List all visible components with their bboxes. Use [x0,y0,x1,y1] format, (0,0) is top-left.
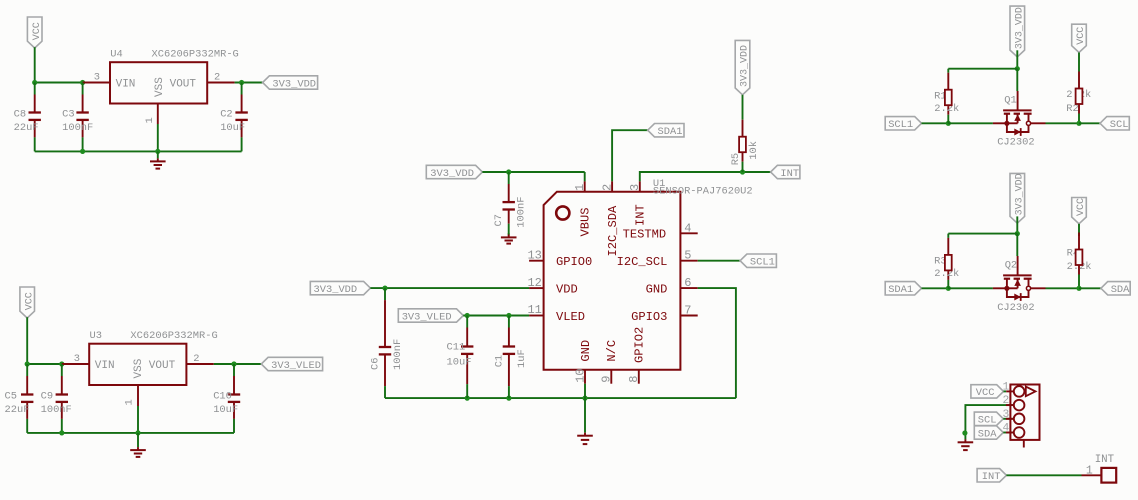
wire R3 to Q2 source [948,287,993,289]
wire VOUT to 3V3_VLED label [214,363,261,365]
sensor U1 SENSOR-PAJ7620U2 body [544,178,753,370]
svg-text:I2C_SDA: I2C_SDA [606,205,620,257]
wire SDA1 to R3 [922,287,949,289]
svg-text:1: 1 [1003,381,1010,393]
svg-text:VOUT: VOUT [170,78,197,90]
supply flag VCC (R2) [1072,24,1088,52]
wire pin6 GND to rail [698,288,736,398]
junction C7 [506,169,511,174]
junction C5/VCC [25,361,30,366]
svg-text:22uF: 22uF [5,404,30,416]
svg-text:3V3_VLED: 3V3_VLED [271,360,321,372]
wire row VCC-C8-C3 [35,82,83,84]
svg-text:R5: R5 [730,153,742,165]
junction rail C11 [465,396,470,401]
svg-text:VDD: VDD [556,283,578,297]
net label SCL1 (pin5) [740,254,776,269]
svg-text:C5: C5 [5,390,17,402]
net label SDA (connector) [974,426,1003,441]
supply flag 3V3_VDD (R5) [735,40,751,94]
svg-text:VCC: VCC [32,22,43,40]
svg-text:100nF: 100nF [392,339,404,370]
svg-text:C2: C2 [220,108,232,120]
junction rail VSS [155,149,160,154]
wire to SCL label [1079,122,1100,124]
svg-text:GPIO3: GPIO3 [631,310,667,324]
svg-text:3V3_VDD: 3V3_VDD [314,284,358,296]
supply flag VCC (U4 input) [27,17,43,48]
resistor R4 2.2k [1067,233,1092,289]
svg-text:7: 7 [684,304,691,318]
capacitor C3 100nF [62,83,93,152]
wire gnd rail U3 [27,432,234,434]
resistor R1 2.2k [934,69,959,124]
pin 2 stub of U4 VOUT [207,71,234,83]
svg-text:3V3_VDD: 3V3_VDD [1015,7,1026,49]
svg-text:3V3_VDD: 3V3_VDD [1015,173,1026,215]
svg-text:10: 10 [573,368,587,382]
svg-text:5: 5 [684,249,691,263]
svg-text:Q2: Q2 [1005,259,1017,271]
junction C11 [465,313,470,318]
pin 1 stub of U3 VSS [124,385,138,406]
svg-text:VSS: VSS [133,358,145,378]
svg-text:C8: C8 [14,108,26,120]
svg-text:1uF: 1uF [516,349,528,368]
capacitor C6 100nF [370,288,405,398]
svg-text:100nF: 100nF [41,404,72,416]
pin 7 stub U1 GPIO3 [680,304,697,318]
junction Q2 gate net [1015,231,1020,236]
wire Q1 gate drop [1016,69,1018,91]
wire R1 to Q1 source [948,122,993,124]
junction C2 [239,80,244,85]
capacitor C2 10uF [220,83,248,152]
resistor R5 10k [730,95,760,172]
pin 8 stub U1 GPIO2 [627,370,641,384]
svg-text:10uF: 10uF [447,356,472,368]
svg-text:10uF: 10uF [213,404,238,416]
wire bottom gnd rail U1 [385,397,736,399]
wire VCC to VIN row [34,47,36,82]
net label SCL (connector) [974,412,1003,427]
wire VCC to R4 [1078,224,1080,236]
svg-text:VSS: VSS [154,77,166,97]
net label SCL (right) [1100,117,1129,132]
svg-text:GPIO2: GPIO2 [633,327,647,363]
ground symbol U1 [577,398,593,444]
ground symbol U4 [150,151,166,168]
wire conn pin2 to ground [965,405,1013,439]
wire U4 VSS down [157,124,159,151]
connector J1 4-pin header [1010,385,1039,448]
wire INT row to label [743,171,771,173]
wire 3V3_VLED to pin 11 [463,315,529,317]
pin 11 stub U1 VLED [527,303,543,317]
transistor Q1 CJ2302 [993,91,1046,149]
junction C10 [231,361,236,366]
svg-text:11: 11 [527,303,541,317]
svg-text:8: 8 [627,376,641,383]
svg-text:C6: C6 [370,358,382,370]
svg-text:INT: INT [634,204,648,226]
svg-text:INT: INT [1095,454,1115,466]
pin 2 stub of U3 VOUT [186,353,213,365]
svg-text:C10: C10 [213,390,232,402]
capacitor C1 1uF [493,316,528,399]
capacitor C7 100nF [493,172,528,236]
ground symbol U3 [130,433,146,457]
svg-text:INT: INT [982,471,1001,483]
svg-text:3: 3 [94,71,100,83]
wire VCC to R2 [1078,53,1080,72]
ground symbol C7 [501,233,517,244]
net label SDA1 (Q2 row) [885,282,921,297]
transistor Q2 CJ2302 [993,256,1046,314]
junction C6 [382,286,387,291]
pin 1 stub U1 [573,181,587,191]
wire gate net to R3 top [948,233,1017,235]
svg-text:U3: U3 [90,330,102,342]
junction R3 [946,286,951,291]
svg-text:VCC: VCC [1076,27,1087,45]
ground symbol connector [958,439,974,450]
junction rail C3 [80,149,85,154]
svg-text:3: 3 [74,353,80,365]
svg-text:13: 13 [527,248,541,262]
voltage regulator U3 XC6206P332MR-G [89,330,217,385]
svg-text:CJ2302: CJ2302 [997,137,1034,149]
svg-text:SENSOR-PAJ7620U2: SENSOR-PAJ7620U2 [653,186,753,198]
svg-text:XC6206P332MR-G: XC6206P332MR-G [130,330,217,342]
net label 3V3_VDD (U1 VBUS) [426,165,482,180]
svg-text:SCL: SCL [978,415,997,427]
resistor R3 2.2k [934,234,959,289]
wire SCL1 to R1 [922,122,949,124]
supply flag 3V3_VDD (Q1) [1010,6,1026,57]
svg-text:3V3_VDD: 3V3_VDD [430,168,474,180]
svg-text:2: 2 [214,71,220,83]
wire 3V3_VDD down Q2 [1016,216,1018,233]
svg-text:1: 1 [124,399,136,405]
svg-text:SCL1: SCL1 [750,257,775,269]
wire SDA1 to pin 2 [612,130,648,181]
svg-text:1: 1 [144,117,156,123]
wire row VCC-C5-C9 [27,363,62,365]
junction R1 [946,121,951,126]
wire pin 3 to INT row [640,172,743,181]
pin 3 stub connector [1003,409,1014,421]
net label 3V3_VLED (U3 output) [261,357,322,372]
pin 3 stub of U3 VIN [62,353,89,365]
svg-text:SCL: SCL [1110,119,1129,131]
svg-text:2: 2 [193,353,199,365]
svg-text:100nF: 100nF [516,197,528,228]
pin 10 stub U1 GND [573,368,587,383]
net label SDA1 (U1 pin2) [648,124,684,139]
svg-text:12: 12 [527,276,541,290]
svg-text:3V3_VDD: 3V3_VDD [272,78,316,90]
junction C3 [80,80,85,85]
wire INT to pad [1006,474,1081,476]
svg-text:4: 4 [1003,423,1010,435]
svg-text:U4: U4 [110,49,122,61]
junction C9 [59,361,64,366]
net label SDA (right) [1101,282,1130,297]
wire U3 VSS down [137,406,139,433]
svg-text:3: 3 [1003,409,1010,421]
svg-text:GPIO0: GPIO0 [556,255,592,269]
svg-text:10uF: 10uF [220,122,245,134]
test pad INT [1095,454,1117,483]
svg-text:6: 6 [684,276,691,290]
supply flag VCC (U3 input) [20,287,36,318]
capacitor C9 100nF [41,364,72,433]
svg-text:22uF: 22uF [14,122,39,134]
junction rail pin10 [582,396,587,401]
net label SCL1 (Q1 row) [885,117,921,132]
pin 2 stub U1 [600,181,614,191]
pin 3 stub U1 [628,181,642,191]
net label INT (R5 row) [771,165,800,180]
junction Q1 gate net [1015,66,1020,71]
junction C8/VCC [32,80,37,85]
svg-text:GND: GND [579,340,593,362]
svg-text:XC6206P332MR-G: XC6206P332MR-G [152,49,239,61]
junction rail C1 [506,396,511,401]
svg-text:I2C_SCL: I2C_SCL [617,255,668,269]
pin 4 stub connector [1003,423,1014,435]
svg-text:4: 4 [684,221,691,235]
pin 5 stub U1 I2C_SCL [680,249,697,263]
wire pin5 to SCL1 label [698,260,740,262]
capacitor C5 22uF [5,364,34,433]
svg-text:SDA: SDA [1111,284,1130,296]
pin stub INT pad [1082,464,1102,477]
wire 3V3_VDD to pin1 [482,171,584,173]
pin 13 stub U1 GPIO0 [527,248,543,262]
net label 3V3_VDD (U4 output) [263,76,318,91]
pin 3 stub of U4 VIN [83,71,110,83]
net label INT (bottom) [977,469,1006,484]
wire 3V3_VDD to pin 12 [370,287,529,289]
svg-text:C7: C7 [493,214,505,226]
svg-text:INT: INT [780,168,799,180]
svg-text:3: 3 [628,184,642,191]
wire VCC to U3 VIN row [26,317,28,364]
pin 1 stub connector [1003,381,1014,393]
junction rail VSS U3 [135,430,140,435]
svg-text:VIN: VIN [116,78,136,90]
junction rail C9 [59,430,64,435]
wire to SDA label [1079,287,1101,289]
svg-text:C9: C9 [41,390,53,402]
wire pin10 to rail [584,384,586,398]
svg-text:Q1: Q1 [1004,95,1016,107]
svg-text:3V3_VLED: 3V3_VLED [402,311,452,323]
svg-text:2: 2 [1003,395,1010,407]
svg-text:100nF: 100nF [62,122,93,134]
svg-text:1: 1 [573,184,587,191]
supply flag 3V3_VDD (Q2) [1010,173,1026,223]
svg-text:N/C: N/C [605,340,619,362]
svg-text:10k: 10k [748,141,760,160]
svg-text:TESTMD: TESTMD [623,228,667,242]
svg-text:2: 2 [600,184,614,191]
pin 2 stub connector [1003,395,1014,407]
junction gnd drop [962,430,967,435]
wire VCC to conn pin1 [1004,390,1007,392]
wire VOUT to 3V3_VDD label [235,82,263,84]
wire Q1 drain to R2/SCL [1046,122,1080,124]
svg-text:C1: C1 [493,355,505,367]
net label 3V3_VLED (U1 VLED) [398,309,463,324]
junction C1 [506,313,511,318]
svg-text:3V3_VDD: 3V3_VDD [740,45,751,87]
svg-text:C11: C11 [447,341,466,353]
net label 3V3_VDD (U1 VDD) [310,281,370,296]
svg-text:VIN: VIN [95,360,115,372]
wire 3V3_VDD down Q1 [1016,50,1018,68]
svg-text:SDA1: SDA1 [658,126,683,138]
svg-text:VCC: VCC [24,292,35,310]
svg-text:C3: C3 [62,108,74,120]
pin 9 stub U1 N/C [600,370,614,384]
resistor R2 2.2k [1066,71,1091,123]
wire gate net to R1 top [948,68,1017,70]
svg-text:9: 9 [600,376,614,383]
svg-text:VOUT: VOUT [149,360,176,372]
capacitor C10 10uF [213,364,240,433]
capacitor C11 10uF [447,316,474,399]
svg-text:VLED: VLED [556,310,585,324]
wire Q2 drain to R4/SDA [1046,287,1080,289]
svg-text:GND: GND [646,283,668,297]
wire down into pin 1 [584,172,586,181]
wire gnd rail U4 [35,150,242,152]
svg-text:SDA1: SDA1 [888,284,913,296]
svg-text:SCL1: SCL1 [888,119,913,131]
svg-text:CJ2302: CJ2302 [997,302,1034,314]
svg-text:SDA: SDA [978,428,997,440]
pin 12 stub U1 VDD [527,276,543,290]
wire Q2 gate drop [1016,234,1018,256]
svg-text:VBUS: VBUS [579,207,593,236]
pin 1 stub of U4 VSS [144,104,158,125]
net label VCC (connector pin1) [971,385,1004,400]
pin 4 stub U1 TESTMD [680,221,697,235]
junction R5/INT [740,169,745,174]
supply flag VCC (R4) [1072,198,1088,224]
junction R2 [1076,121,1081,126]
svg-text:VCC: VCC [976,387,995,399]
svg-text:1: 1 [1086,464,1093,477]
capacitor C8 22uF [14,83,41,152]
svg-text:VCC: VCC [1076,198,1087,216]
voltage regulator U4 XC6206P332MR-G [110,49,239,104]
junction R4 [1076,286,1081,291]
pin 6 stub U1 GND [680,276,697,290]
